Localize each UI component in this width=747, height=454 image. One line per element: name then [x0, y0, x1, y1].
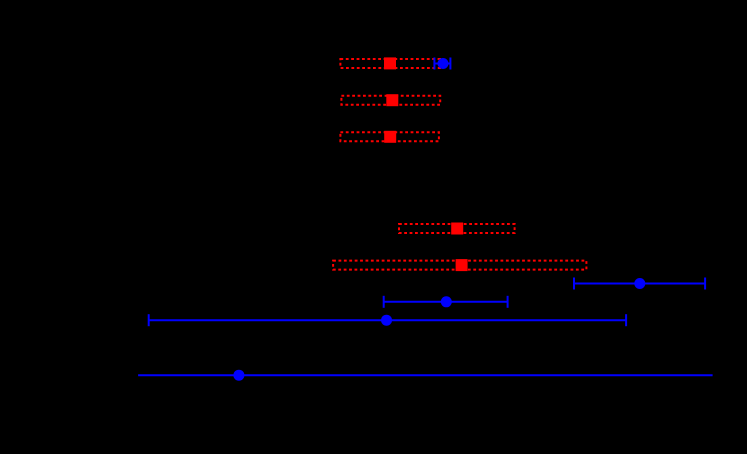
blue error bar row 1 — [434, 58, 450, 70]
red square marker row 2 — [386, 94, 398, 106]
red dashed box row 4 — [399, 224, 515, 233]
red square marker row 3 — [384, 131, 396, 143]
blue error bar row 4 — [149, 314, 626, 326]
blue error bar row 2 — [574, 278, 705, 290]
red dashed box row 1 — [340, 59, 440, 68]
red square marker row 5 — [456, 259, 468, 271]
blue circle marker row 5 — [233, 370, 244, 381]
blue error bar row 3 — [384, 296, 508, 308]
red dashed box row 5 — [333, 261, 586, 270]
blue error bar row 5 (clipped, no caps) — [138, 374, 713, 376]
blue circle marker row 3 — [441, 296, 452, 307]
red dashed box row 3 — [340, 132, 439, 141]
red square marker row 1 — [384, 57, 396, 69]
red dashed box row 2 — [341, 96, 440, 105]
red square marker row 4 — [451, 223, 463, 235]
blue circle marker row 4 — [381, 315, 392, 326]
blue circle marker row 2 — [634, 278, 645, 289]
blue circle marker row 1 — [438, 58, 449, 69]
